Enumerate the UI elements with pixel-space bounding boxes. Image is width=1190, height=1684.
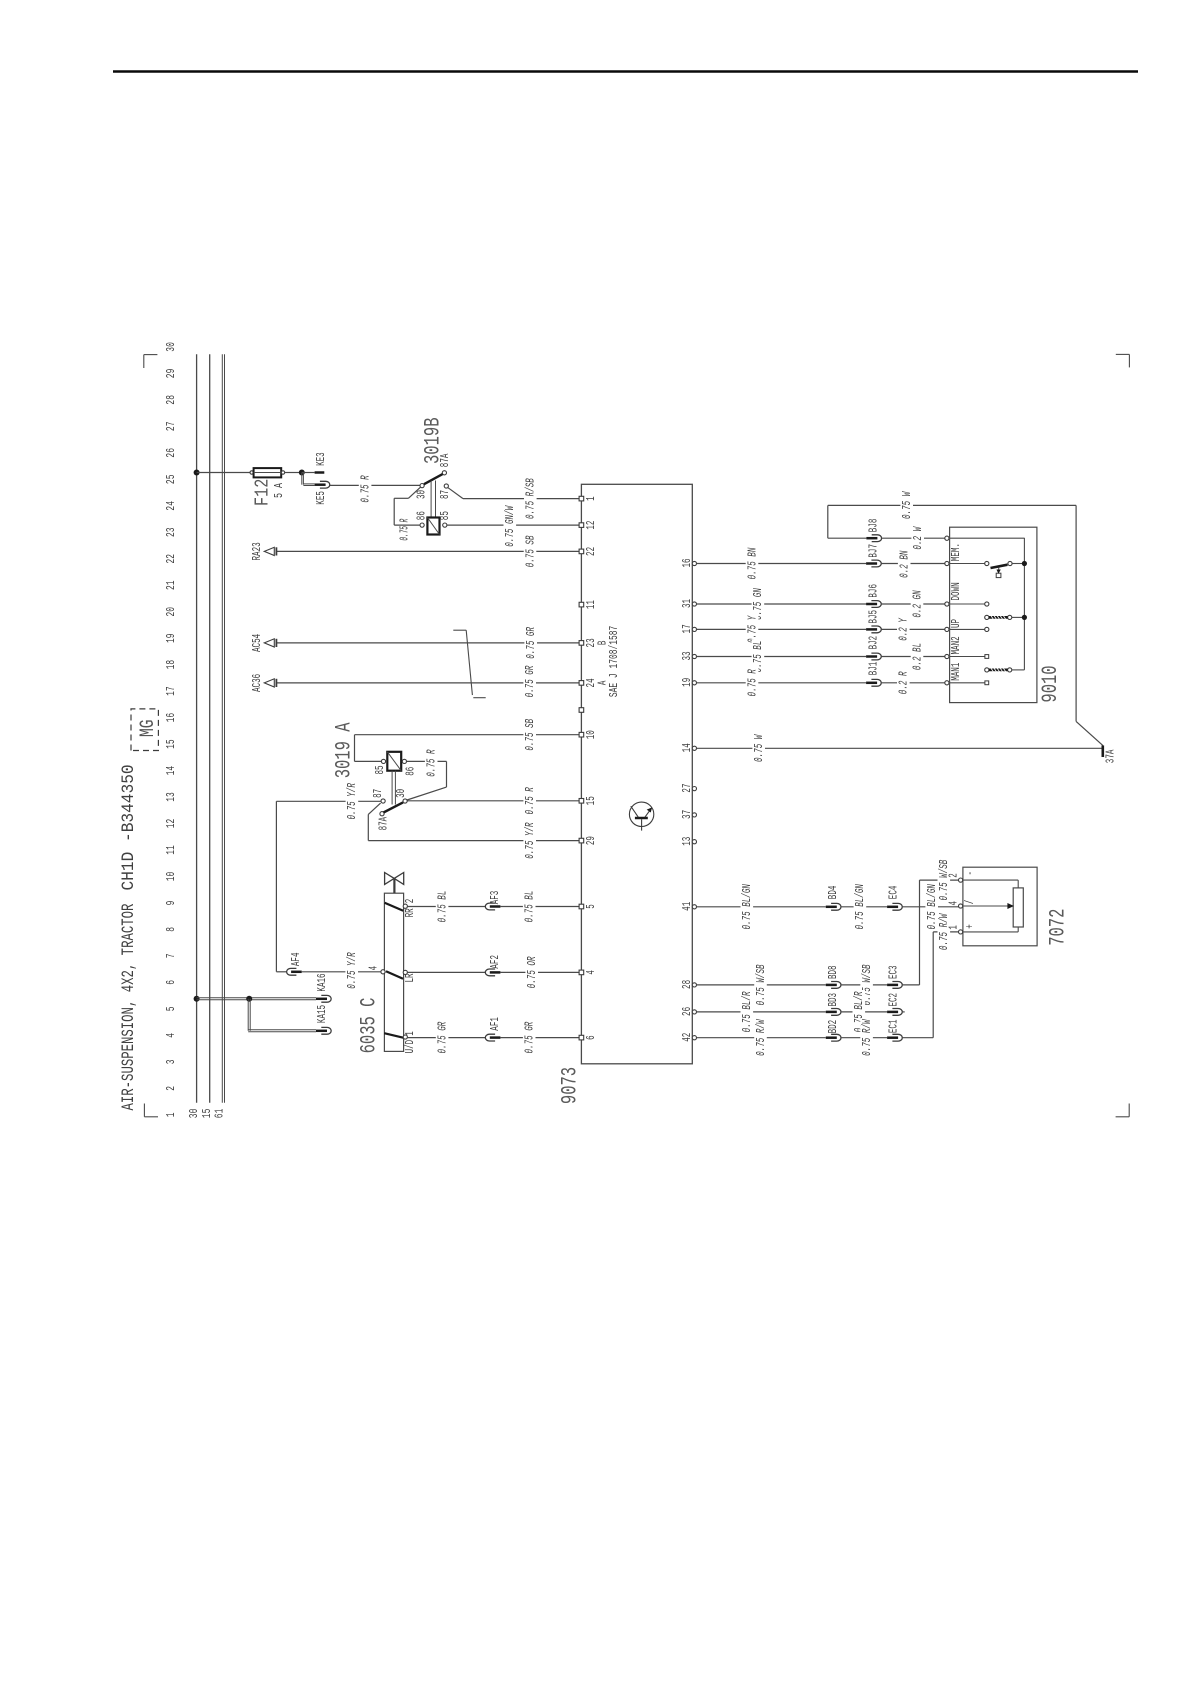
- wire BJ1 to 9010 MAN1, 0.2 R: [881, 682, 945, 684]
- svg-text:13: 13: [165, 792, 178, 802]
- svg-text:14: 14: [165, 766, 178, 776]
- relay 3019B contact arm 30-87A: [424, 474, 443, 484]
- svg-text:5: 5: [165, 1006, 178, 1011]
- svg-text:4: 4: [366, 966, 380, 971]
- svg-text:0.75 W/SB: 0.75 W/SB: [937, 860, 951, 901]
- svg-text:1: 1: [403, 1031, 417, 1036]
- ECU bottom edge pins: [692, 561, 696, 565]
- connector EC3: [887, 984, 898, 987]
- svg-text:6: 6: [165, 980, 178, 985]
- connector KE5: [315, 483, 326, 486]
- svg-text:8: 8: [165, 927, 178, 932]
- junction node on rail 30 feed KA15/KA16: [194, 996, 200, 1002]
- svg-text:0.75 R/W: 0.75 R/W: [754, 1018, 768, 1055]
- wire BD2 to EC1, 0.75 R/W: [841, 1037, 887, 1039]
- svg-text:EC1: EC1: [887, 1020, 901, 1034]
- relay 3019A pin 87: [381, 799, 385, 803]
- svg-text:87A: 87A: [438, 453, 452, 467]
- svg-text:0.75 R/SB: 0.75 R/SB: [524, 478, 538, 519]
- connector BD2: [826, 1036, 837, 1039]
- svg-text:12: 12: [584, 521, 598, 530]
- ECU 9073 box: [581, 484, 692, 1064]
- 6035C contact U/D pin 1: [384, 1033, 403, 1038]
- svg-text:4: 4: [946, 901, 960, 906]
- svg-text:19: 19: [680, 678, 694, 687]
- svg-text:AC54: AC54: [250, 634, 264, 652]
- svg-text:15: 15: [165, 739, 178, 749]
- svg-text:0.75 R: 0.75 R: [523, 787, 537, 815]
- power rail 15: [209, 354, 211, 1102]
- wire ECU19 to BJ1, 0.75 R: [697, 682, 867, 684]
- svg-text:MEM.: MEM.: [949, 543, 963, 561]
- wire BJ2 to 9010 MAN2, 0.2 BL: [881, 656, 945, 658]
- 6035C contact RR pin 2: [385, 903, 404, 911]
- svg-text:KA15: KA15: [315, 1005, 329, 1023]
- svg-text:9073: 9073: [558, 1067, 583, 1104]
- svg-text:5 A: 5 A: [272, 483, 286, 498]
- connector BD8: [826, 984, 837, 987]
- svg-text:9010: 9010: [1038, 665, 1063, 702]
- svg-text:0.75 Y/R: 0.75 Y/R: [345, 783, 359, 820]
- EC2 stub wire: [902, 1011, 904, 1013]
- svg-text:41: 41: [680, 902, 694, 911]
- wire ECU33 to BJ2, 0.75 BL: [697, 656, 867, 658]
- svg-text:17: 17: [680, 624, 694, 633]
- svg-text:BJ8: BJ8: [867, 519, 881, 533]
- svg-text:15: 15: [584, 796, 598, 805]
- svg-text:F12: F12: [252, 479, 274, 506]
- wire branch to KA15 (double): [247, 999, 249, 1031]
- wire BJ7 to 9010 MEM, 0.2 BN: [881, 563, 945, 565]
- 6035C contact LR pin 4: [381, 970, 385, 974]
- wire 3019A pin 30 to ECU pin 15, 0.75 R: [407, 800, 579, 802]
- twisted pair marker across SAE J1708 wires: [453, 629, 466, 631]
- junction node KA15 branch: [246, 996, 252, 1002]
- page header rule: [113, 70, 1138, 72]
- svg-text:26: 26: [165, 448, 178, 458]
- junction node KE3/KE5 split: [299, 470, 305, 476]
- 7072 pin1 wire to pot: [963, 931, 1018, 933]
- 7072 pin4 wiper arrow: [963, 905, 1010, 907]
- svg-text:0.75 W: 0.75 W: [752, 734, 766, 762]
- svg-text:0.75 R: 0.75 R: [398, 518, 412, 540]
- wire 6035C LR to AF2: [407, 971, 485, 973]
- svg-text:BJ6: BJ6: [867, 584, 881, 598]
- svg-text:BJ5: BJ5: [867, 610, 881, 624]
- svg-text:10: 10: [165, 872, 178, 882]
- wire KE5 to relay 3019B pin 30, 0.75 R: [330, 484, 420, 486]
- svg-text:AF3: AF3: [488, 891, 502, 905]
- connector BJ5: [866, 628, 877, 631]
- 6035C valve stem: [393, 878, 395, 893]
- svg-text:0.75 W: 0.75 W: [900, 491, 914, 519]
- svg-text:25: 25: [165, 474, 178, 484]
- svg-text:23: 23: [584, 638, 598, 647]
- svg-text:0.75 Y/R: 0.75 Y/R: [523, 822, 537, 859]
- svg-text:0.75 GR: 0.75 GR: [435, 1021, 449, 1053]
- svg-text:7: 7: [165, 953, 178, 958]
- svg-text:24: 24: [584, 678, 598, 687]
- wire AF1 to ECU pin 6, 0.75 GR: [500, 1037, 579, 1039]
- svg-text:30: 30: [165, 342, 178, 352]
- wire EC1 to 7072 pin 1 via loop, 0.75 R/W: [902, 1037, 933, 1039]
- relay 3019A pin 87A: [380, 812, 384, 816]
- off-page arrow RA23 wire to ECU 22, 0.75 SB: [276, 550, 579, 552]
- svg-text:0.2 BL: 0.2 BL: [910, 643, 924, 670]
- svg-text:/: /: [963, 900, 977, 905]
- svg-text:+: +: [963, 924, 977, 929]
- svg-text:KE3: KE3: [314, 452, 328, 466]
- power rail 61 (double line): [221, 354, 223, 1102]
- svg-text:85: 85: [438, 511, 452, 520]
- svg-text:BJ7: BJ7: [867, 544, 881, 558]
- connector KA15: [316, 1030, 327, 1033]
- connector KE3 (blade end): [315, 471, 325, 474]
- svg-text:0.75 BL/GN: 0.75 BL/GN: [853, 884, 867, 930]
- svg-text:UP: UP: [949, 619, 963, 628]
- svg-text:31: 31: [680, 599, 694, 608]
- wire 3019A 86 to switch pin 30, 0.75 R: [407, 760, 447, 762]
- 9010 internal 0.2W pin wire to bus: [950, 537, 1025, 539]
- wire ECU28 to BD8, 0.75 W/SB: [697, 984, 826, 986]
- relay 3019A pin 30: [403, 799, 407, 803]
- svg-text:6: 6: [584, 1035, 598, 1040]
- frame corner top-right: [143, 355, 145, 368]
- svg-text:37: 37: [680, 810, 694, 819]
- svg-text:2: 2: [946, 873, 960, 878]
- relay 3019B link contact to coil (double): [430, 481, 432, 518]
- svg-text:20: 20: [165, 607, 178, 617]
- svg-text:0.2 R: 0.2 R: [897, 671, 911, 694]
- wire BD3 to EC2, 0.75 BL/R: [841, 1011, 887, 1013]
- relay 3019A coil: [387, 752, 401, 771]
- connector BD3: [826, 1011, 837, 1014]
- svg-text:61: 61: [214, 1109, 227, 1119]
- wire 3019B coil 86 branch from supply, 0.75 R: [394, 524, 420, 526]
- svg-text:MAN1: MAN1: [949, 663, 963, 681]
- relay 3019B pin 86: [420, 523, 424, 527]
- svg-text:0.75 Y: 0.75 Y: [745, 615, 759, 643]
- svg-text:0.75 R/W: 0.75 R/W: [937, 913, 951, 950]
- svg-text:37A: 37A: [1104, 749, 1118, 763]
- svg-text:87: 87: [371, 789, 385, 798]
- wire ECU14 to ground 37A, 0.75 W: [697, 747, 1103, 749]
- svg-text:BJ2: BJ2: [867, 636, 881, 650]
- wire ECU16 to BJ7, 0.75 BN: [697, 563, 867, 565]
- relay 3019A pin 86: [402, 759, 406, 763]
- 9010 MAN2 contact: [950, 656, 985, 658]
- wire ECU42 to BD2, 0.75 R/W: [697, 1037, 826, 1039]
- 7072 potentiometer: [1013, 888, 1023, 927]
- svg-text:AF4: AF4: [289, 953, 303, 967]
- component 6035C box: [384, 893, 403, 1051]
- relay 3019B coil: [427, 518, 439, 535]
- connector BJ8: [866, 537, 877, 540]
- branch 87-node to ECU pin 29, 0.75 Y/R: [368, 803, 380, 814]
- wire ECU41 to BD4, 0.75 BL/GN: [697, 906, 826, 908]
- wire 6035C RR2 to AF3, 0.75 BL: [407, 906, 485, 908]
- svg-text:RR: RR: [403, 908, 417, 917]
- svg-text:1: 1: [946, 925, 960, 930]
- svg-text:SAE J 1708/1587: SAE J 1708/1587: [607, 626, 621, 697]
- wire 3019A 87 to AF4, 0.75 Y/R: [276, 800, 381, 802]
- wire AF3 to ECU pin 5, 0.75 BL: [500, 906, 579, 908]
- svg-text:27: 27: [165, 421, 178, 431]
- wire EC4 to 7072 pin 4, 0.75 BL/GN: [902, 906, 958, 908]
- svg-text:0.75 SB: 0.75 SB: [523, 536, 537, 568]
- svg-text:0.75 BN: 0.75 BN: [745, 547, 759, 579]
- svg-text:14: 14: [680, 743, 694, 752]
- svg-text:0.75 W/SB: 0.75 W/SB: [754, 964, 768, 1005]
- svg-text:5: 5: [584, 904, 598, 909]
- connector AF1: [485, 1034, 495, 1041]
- wire BJ6 to 9010 DOWN, 0.2 GN: [881, 603, 945, 605]
- 7072 pin 4: [959, 904, 963, 908]
- svg-text:0.75 BL: 0.75 BL: [435, 891, 449, 923]
- wire rail30 to KA16 (double): [197, 999, 316, 1001]
- svg-text:26: 26: [680, 1007, 694, 1016]
- svg-text:BD4: BD4: [826, 886, 840, 900]
- svg-text:22: 22: [584, 547, 598, 556]
- svg-text:MAN2: MAN2: [949, 636, 963, 654]
- svg-text:0.75 GR: 0.75 GR: [523, 665, 537, 697]
- svg-text:EC2: EC2: [887, 993, 901, 1007]
- svg-text:28: 28: [165, 395, 178, 405]
- svg-text:87A: 87A: [377, 816, 391, 830]
- ECU internal transistor symbol: [629, 802, 653, 826]
- connector BJ6: [866, 603, 877, 606]
- 9010 internal common bus: [1023, 538, 1025, 670]
- svg-text:86: 86: [414, 511, 428, 520]
- svg-text:86: 86: [404, 767, 418, 776]
- connector EC1: [887, 1036, 898, 1039]
- svg-text:4: 4: [165, 1033, 178, 1038]
- 9010 MEM contact: [950, 563, 985, 565]
- svg-text:LR: LR: [403, 973, 417, 982]
- 7072 pin2 wire to pot: [963, 879, 1018, 881]
- svg-text:RA23: RA23: [250, 542, 264, 560]
- svg-text:15: 15: [201, 1109, 214, 1119]
- wire 0.75 W BJ8-loop to ground 37A: [828, 504, 1076, 506]
- 9010 MAN1 contact: [950, 682, 985, 684]
- svg-text:BD2: BD2: [826, 1020, 840, 1034]
- 9010 bridge contact 2: [985, 668, 989, 672]
- connector KA16: [316, 998, 327, 1001]
- svg-text:0.2 GN: 0.2 GN: [910, 590, 924, 618]
- wire junction to KE5 (double): [301, 473, 303, 485]
- svg-text:21: 21: [165, 580, 178, 590]
- connector AF2: [485, 969, 495, 976]
- svg-text:29: 29: [584, 836, 598, 845]
- svg-text:29: 29: [165, 369, 178, 379]
- fuse F12 5A: [254, 468, 282, 477]
- svg-text:10: 10: [584, 730, 598, 739]
- svg-text:12: 12: [165, 819, 178, 829]
- relay 3019A contact arm 87A-30: [384, 802, 404, 812]
- svg-text:85: 85: [373, 765, 387, 774]
- svg-text:-: -: [963, 871, 977, 876]
- svg-text:MG: MG: [137, 719, 160, 737]
- svg-text:13: 13: [680, 837, 694, 846]
- svg-text:3019 A: 3019 A: [332, 722, 357, 778]
- svg-text:28: 28: [680, 980, 694, 989]
- wire BJ5 to 9010 UP, 0.2 Y: [881, 628, 945, 630]
- wire 3019B 87 to ECU pin 1, 0.75 R/SB: [448, 488, 463, 499]
- svg-text:22: 22: [165, 554, 178, 564]
- svg-text:0.2 W: 0.2 W: [911, 526, 925, 550]
- svg-text:30: 30: [394, 789, 408, 798]
- svg-text:U/D: U/D: [403, 1040, 417, 1054]
- svg-text:0.75 R: 0.75 R: [745, 669, 759, 697]
- svg-text:23: 23: [165, 527, 178, 537]
- svg-text:2: 2: [403, 899, 417, 904]
- 9010 UP contact: [950, 628, 985, 630]
- relay 3019B pin 30: [420, 484, 424, 488]
- wire 3019B 85 to ECU pin 12, 0.75 GN/W: [447, 524, 579, 526]
- 7072 pin 1: [959, 930, 963, 934]
- svg-text:0.2 BN: 0.2 BN: [898, 550, 912, 578]
- frame corner bottom-left: [1128, 1104, 1130, 1117]
- relay 3019B pin 87: [444, 484, 448, 488]
- wire BD8 to EC3, 0.75 W/SB: [841, 984, 887, 986]
- svg-text:0.75 BL/GN: 0.75 BL/GN: [740, 884, 754, 930]
- frame corner bottom-right: [1128, 354, 1130, 367]
- svg-text:DOWN: DOWN: [949, 582, 963, 600]
- wire 6035C U/D1 to AF1, 0.75 GR: [407, 1037, 485, 1039]
- svg-text:BJ1: BJ1: [867, 662, 881, 676]
- wire 3019A 85 to ECU pin 10, 0.75 SB: [355, 760, 382, 762]
- wire AF2 to ECU pin 4, 0.75 OR: [500, 971, 579, 973]
- svg-text:16: 16: [165, 713, 178, 723]
- svg-text:2: 2: [165, 1086, 178, 1091]
- svg-text:0.75 GR: 0.75 GR: [524, 627, 538, 659]
- connector AF3: [485, 903, 495, 910]
- wire ECU31 to BJ6, 0.75 GN: [697, 603, 867, 605]
- power rail 30: [196, 354, 198, 1102]
- svg-text:87: 87: [438, 490, 452, 499]
- svg-text:CH1D -B344350: CH1D -B344350: [120, 764, 139, 890]
- svg-text:EC4: EC4: [887, 886, 901, 900]
- connector BD4: [826, 906, 837, 909]
- connector BJ2: [866, 655, 877, 658]
- 9010 junction dot bridge1-bus: [1022, 615, 1027, 620]
- svg-text:30: 30: [188, 1109, 201, 1119]
- ECU top edge pins: [579, 496, 584, 501]
- svg-text:0.75 R: 0.75 R: [358, 475, 372, 503]
- svg-text:BD8: BD8: [826, 965, 840, 979]
- relay 3019A pin 85: [381, 759, 385, 763]
- svg-text:KA16: KA16: [315, 973, 329, 991]
- svg-text:33: 33: [680, 651, 694, 660]
- svg-text:42: 42: [680, 1033, 694, 1042]
- svg-text:0.75 OR: 0.75 OR: [525, 956, 539, 988]
- connector EC2: [887, 1011, 898, 1014]
- svg-text:1: 1: [165, 1112, 178, 1117]
- svg-text:24: 24: [165, 501, 178, 511]
- connector BJ1: [866, 682, 877, 685]
- connector EC4: [887, 906, 898, 909]
- svg-text:18: 18: [165, 660, 178, 670]
- svg-text:0.75 BL: 0.75 BL: [523, 891, 537, 923]
- connection box MG dashed: [131, 709, 158, 751]
- svg-text:0.75 R/W: 0.75 R/W: [860, 1018, 874, 1055]
- control unit 9010 box: [950, 527, 1037, 702]
- svg-text:17: 17: [165, 686, 178, 696]
- 9010 DOWN contact: [950, 603, 985, 605]
- relay 3019B pin 85: [443, 523, 447, 527]
- ground 37A: [1102, 745, 1105, 757]
- wire BD4 to EC4, 0.75 BL/GN: [841, 906, 887, 908]
- off-page arrow AC54 wire to ECU 23, 0.75 GR: [276, 642, 579, 644]
- svg-text:11: 11: [165, 845, 178, 855]
- relay 3019A link coil to contact (double): [391, 771, 393, 805]
- svg-text:0.75 R: 0.75 R: [425, 749, 439, 777]
- svg-text:4: 4: [584, 970, 598, 975]
- wire 9010 top to BJ8, 0.2 W / 0.75 W loop: [827, 505, 829, 538]
- svg-text:AF2: AF2: [488, 955, 502, 969]
- 6035C valve symbol: [385, 873, 395, 885]
- wire ECU26 to BD3, 0.75 BL/R: [697, 1011, 826, 1013]
- svg-text:EC3: EC3: [887, 965, 901, 979]
- frame corner top-left: [143, 1104, 145, 1117]
- svg-text:27: 27: [680, 784, 694, 793]
- 9010 bridge contact 1: [985, 615, 989, 619]
- svg-text:AF1: AF1: [488, 1017, 502, 1031]
- svg-text:0.75 SB: 0.75 SB: [523, 719, 537, 751]
- off-page arrow AC36 wire to ECU 24, 0.75 GR: [276, 682, 579, 684]
- svg-text:0.75 GR: 0.75 GR: [523, 1021, 537, 1053]
- connector BJ7: [866, 562, 877, 565]
- svg-text:BD3: BD3: [826, 993, 840, 1007]
- 9010 junction dot MEM-bus: [1022, 561, 1027, 566]
- svg-text:AC36: AC36: [250, 674, 264, 692]
- svg-text:KE5: KE5: [314, 491, 328, 505]
- svg-text:1: 1: [584, 496, 598, 501]
- relay 3019B pin 87A: [442, 471, 446, 475]
- connector AF4: [287, 968, 297, 975]
- wire fuse to junction: [285, 472, 299, 474]
- wire rail30 to fuse: [197, 472, 250, 474]
- svg-text:6035 C: 6035 C: [357, 998, 382, 1054]
- 7072 pin 2: [959, 878, 963, 882]
- wire ECU17 to BJ5, 0.75 Y: [697, 628, 867, 630]
- svg-text:AIR-SUSPENSION, 4X2, TRACTOR: AIR-SUSPENSION, 4X2, TRACTOR: [120, 904, 139, 1111]
- svg-text:0.75 Y/R: 0.75 Y/R: [345, 952, 359, 989]
- svg-text:16: 16: [680, 558, 694, 567]
- svg-text:7072: 7072: [1046, 909, 1071, 946]
- svg-text:3: 3: [165, 1059, 178, 1064]
- junction node on rail 30 at fuse drop: [194, 470, 200, 476]
- svg-text:0.75 BL/R: 0.75 BL/R: [740, 991, 754, 1032]
- svg-text:0.2 Y: 0.2 Y: [897, 617, 911, 641]
- svg-text:11: 11: [584, 600, 598, 609]
- svg-text:0.75 GN/W: 0.75 GN/W: [503, 505, 517, 547]
- sensor 7072 box: [963, 867, 1037, 946]
- wire AF4 to 6035C pin 4, 0.75 Y/R: [302, 971, 381, 973]
- wire EC3 to 7072 pin 2 via loop, 0.75 W/SB: [902, 984, 919, 986]
- svg-text:9: 9: [165, 901, 178, 906]
- svg-text:19: 19: [165, 633, 178, 643]
